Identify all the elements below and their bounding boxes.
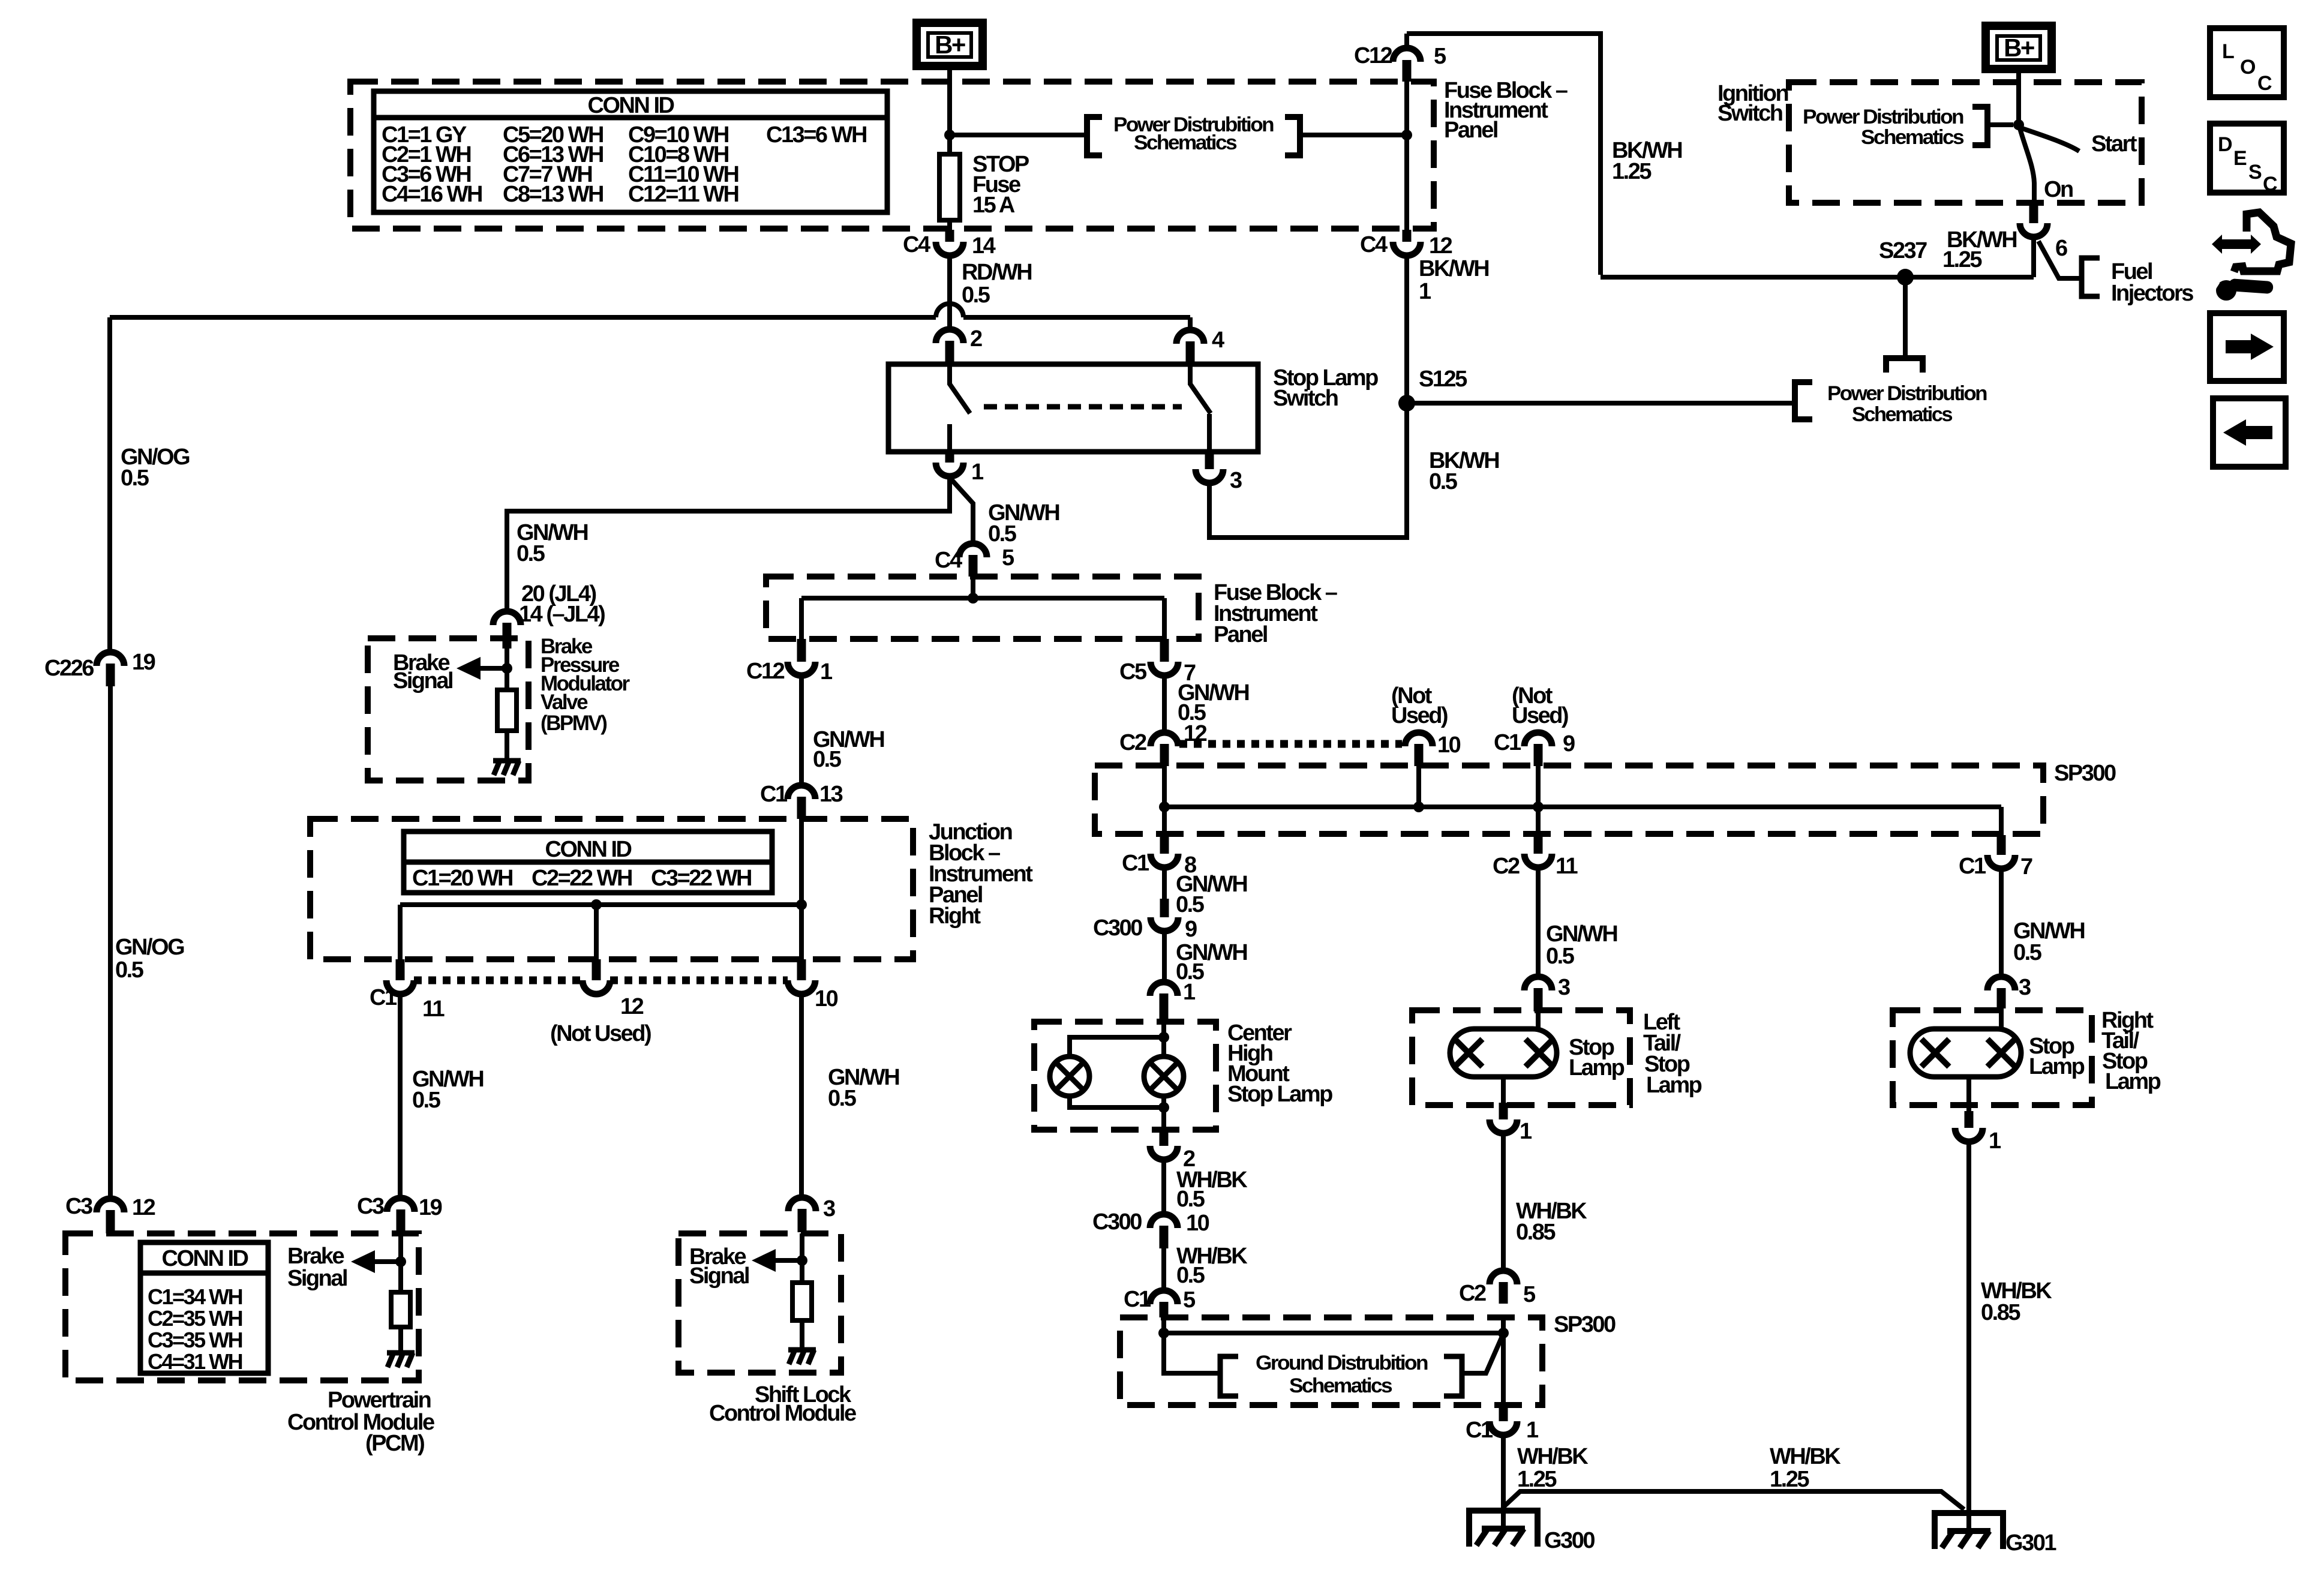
connector pin 1 (CHMSL) xyxy=(1150,982,1178,996)
wire C1-13 through junction block xyxy=(799,819,804,959)
bracket left (power distribution ref) xyxy=(1087,117,1102,155)
svg-text:C: C xyxy=(2263,173,2277,196)
bracket (power distribution ref S237) xyxy=(1886,358,1923,373)
svg-text:C1: C1 xyxy=(1124,1287,1151,1312)
connector pin 3 (right tail lamp) xyxy=(1987,977,2015,990)
connector C4 pin 12 xyxy=(1403,230,1412,242)
wire into right lamp xyxy=(1999,1008,2004,1030)
wire pin6 to fuel injectors xyxy=(2038,241,2082,278)
svg-text:1.25: 1.25 xyxy=(1612,159,1652,184)
svg-text:C226: C226 xyxy=(44,656,94,681)
wire bus to C5-7 xyxy=(1162,598,1167,639)
wire GN/OG down to C226 xyxy=(107,317,112,652)
svg-text:5: 5 xyxy=(1002,545,1014,571)
connector C226 pin 19 xyxy=(97,652,124,666)
svg-text:0.5: 0.5 xyxy=(988,521,1017,547)
bracket (power distribution ref ignition) xyxy=(1972,107,1987,145)
svg-text:Brake: Brake xyxy=(287,1244,344,1269)
wire RD/WH through hop to switch pin2 xyxy=(947,304,952,329)
svg-text:Injectors: Injectors xyxy=(2111,281,2193,306)
wire right lamp return xyxy=(1966,1077,1971,1111)
svg-text:Power Distribution: Power Distribution xyxy=(1827,382,1987,405)
wire GN/WH C2-11 to lamp pin 3 xyxy=(1536,867,1541,977)
svg-text:10: 10 xyxy=(815,986,838,1011)
connector C1 pin 5 (ground dist) xyxy=(1150,1290,1178,1304)
splice pack SP300 (dashed box) xyxy=(1095,766,2043,834)
icon vehicle schematic nav xyxy=(2212,235,2261,254)
bracket right (ground distribution ref) xyxy=(1444,1356,1462,1396)
connector pin 10 xyxy=(797,959,806,980)
svg-text:Schematics: Schematics xyxy=(1134,131,1237,154)
svg-text:WH/BK: WH/BK xyxy=(1517,1444,1589,1469)
svg-text:0.5: 0.5 xyxy=(1546,944,1575,969)
svg-text:BK/WH: BK/WH xyxy=(1419,256,1488,281)
svg-text:0.5: 0.5 xyxy=(121,466,149,491)
center high mount stop lamp (dashed box) xyxy=(1034,1022,1216,1130)
bulb CHMSL right xyxy=(1144,1056,1184,1096)
svg-text:C2: C2 xyxy=(1459,1281,1486,1306)
resistor shift lock input xyxy=(792,1283,812,1320)
wire GN/WH pin1 to BPMV branch xyxy=(507,476,950,611)
wire bus to C1-11 xyxy=(398,905,403,959)
connector pin 1 (right tail lamp) xyxy=(1965,1111,1974,1128)
CONN ID table (PCM) xyxy=(140,1242,268,1373)
svg-text:1: 1 xyxy=(1183,980,1196,1005)
switch contact pin3 xyxy=(1207,414,1212,452)
ignition switch (dashed box) xyxy=(1789,82,2142,203)
switch blade left (pin2) xyxy=(950,364,970,413)
svg-text:C300: C300 xyxy=(1092,1209,1142,1235)
svg-text:Schematics: Schematics xyxy=(1861,126,1964,149)
svg-text:12: 12 xyxy=(1429,233,1452,259)
wire CHMSL branch to left bulb xyxy=(1070,1037,1164,1057)
wire GN/WH C300-9 to lamp pin 1 xyxy=(1162,931,1167,982)
svg-text:C12: C12 xyxy=(746,659,785,684)
wire GN/OG C226 to PCM C3-12 xyxy=(108,686,113,1199)
wire WH/BK 1.25 cross-link to G301 xyxy=(1503,1491,1964,1509)
wire bus to C12-1 xyxy=(799,598,804,639)
ignition switch blade to Start xyxy=(2019,127,2079,151)
wire left lamp return xyxy=(1501,1077,1506,1103)
connector BPMV pin 20/14 xyxy=(493,611,521,625)
splice S125 xyxy=(1398,395,1415,412)
svg-text:Ground Distrubition: Ground Distrubition xyxy=(1256,1352,1428,1374)
wire S237 to power distribution ref xyxy=(1903,277,1908,358)
SP300 dotted connector line xyxy=(1179,740,1402,748)
connector C300 pin 9 xyxy=(1160,899,1169,917)
wire BPMV input to resistor xyxy=(505,649,509,690)
wire resistor to ground (shift lock) xyxy=(800,1320,804,1350)
svg-text:0.5: 0.5 xyxy=(1176,1263,1205,1288)
svg-text:3: 3 xyxy=(1558,975,1570,1000)
connector C12 pin 5 (top) xyxy=(1404,34,1409,49)
icon box forward arrow xyxy=(2210,313,2284,381)
svg-text:Start: Start xyxy=(2091,131,2137,157)
junction dot (pin10 branch) xyxy=(796,899,807,910)
svg-text:0.5: 0.5 xyxy=(1176,892,1205,917)
svg-text:Lamp: Lamp xyxy=(2105,1069,2161,1094)
svg-text:SP300: SP300 xyxy=(1554,1312,1616,1337)
svg-text:0.5: 0.5 xyxy=(517,541,545,566)
connector C1 pin 7 xyxy=(1997,835,2006,855)
svg-text:19: 19 xyxy=(419,1195,442,1220)
svg-text:6: 6 xyxy=(2055,236,2067,261)
connector C3 pin 12 (PCM) xyxy=(97,1199,124,1212)
wire C2-12 through SP300 xyxy=(1162,766,1167,835)
svg-text:Valve: Valve xyxy=(541,691,588,714)
ground (PCM internal) xyxy=(387,1350,415,1356)
svg-text:Powertrain: Powertrain xyxy=(328,1388,431,1413)
svg-text:9: 9 xyxy=(1563,731,1575,757)
svg-text:B+: B+ xyxy=(2004,34,2034,62)
wire pin10 to SP300 bus xyxy=(1416,766,1421,807)
svg-text:10: 10 xyxy=(1186,1211,1209,1236)
svg-text:GN/OG: GN/OG xyxy=(115,935,184,960)
connector switch pin 2 xyxy=(936,329,963,343)
svg-text:1: 1 xyxy=(1419,279,1431,304)
right tail/stop lamp (dashed box) xyxy=(1893,1010,2092,1105)
svg-text:C12: C12 xyxy=(1354,43,1392,68)
CONN ID table (junction block) xyxy=(404,831,772,893)
svg-text:3: 3 xyxy=(2019,975,2031,1000)
svg-text:On: On xyxy=(2044,177,2073,202)
svg-text:Signal: Signal xyxy=(393,668,452,694)
wire C1-5 to ground dist bracket xyxy=(1164,1317,1220,1373)
svg-text:G300: G300 xyxy=(1544,1528,1595,1553)
arrow brake signal (shift lock) xyxy=(772,1258,802,1263)
wire CHMSL left bulb return xyxy=(1070,1096,1164,1107)
wire resistor to ground (BPMV) xyxy=(505,731,509,761)
wire GN/WH pin1 to C4-5 xyxy=(949,477,973,544)
connector switch pin 4 xyxy=(1188,317,1193,331)
svg-text:C12=11 WH: C12=11 WH xyxy=(628,182,738,207)
svg-text:2: 2 xyxy=(970,326,982,352)
svg-text:1: 1 xyxy=(1520,1119,1532,1144)
svg-text:C3=35 WH: C3=35 WH xyxy=(148,1328,242,1352)
resistor BPMV input xyxy=(497,690,517,731)
svg-text:Signal: Signal xyxy=(287,1266,347,1291)
svg-text:CONN ID: CONN ID xyxy=(545,837,632,862)
splice pack SP300 ground (dashed box) xyxy=(1120,1317,1542,1405)
wire resistor to ground (PCM) xyxy=(398,1327,403,1353)
svg-text:12: 12 xyxy=(132,1195,155,1220)
switch blade right (pin4) xyxy=(1190,364,1211,413)
svg-text:CONN ID: CONN ID xyxy=(162,1246,248,1271)
svg-text:S: S xyxy=(2248,161,2262,184)
svg-text:0.5: 0.5 xyxy=(1429,469,1458,494)
connector pin 3 (left tail lamp) xyxy=(1524,977,1552,990)
wire BK/WH 1.25 bus to ignition xyxy=(1601,275,2034,280)
connector C2 pin 12 xyxy=(1151,733,1178,746)
splice S237 xyxy=(1897,269,1914,286)
junction dot brake signal (shift lock) xyxy=(797,1255,807,1266)
junction dot SP300 (pin10) xyxy=(1413,801,1424,812)
connector C1 pin 8 xyxy=(1160,835,1169,854)
wire GN/WH C5-7 to C2-12 xyxy=(1162,676,1167,733)
svg-text:11: 11 xyxy=(1556,854,1578,879)
wire GN/WH C1-11 to C3-19 xyxy=(398,994,403,1198)
svg-text:C4: C4 xyxy=(903,232,930,257)
junction dot SP300 (pin9) xyxy=(1533,801,1544,812)
resistor PCM input xyxy=(391,1292,410,1327)
svg-text:0.85: 0.85 xyxy=(1516,1220,1556,1245)
junction dot BPMV brake signal xyxy=(502,663,512,674)
svg-text:1: 1 xyxy=(820,659,833,685)
svg-text:(PCM): (PCM) xyxy=(365,1431,424,1456)
ground G301 xyxy=(1935,1513,2003,1549)
wire GN/WH pin10 to shift lock xyxy=(799,994,804,1197)
svg-text:Power Distribution: Power Distribution xyxy=(1803,106,1963,128)
wire CHMSL input xyxy=(1161,1022,1166,1057)
B+ battery feed symbol (left) xyxy=(917,23,983,66)
connector C300 pin 10 xyxy=(1150,1214,1178,1228)
wire C4-5 into fuse block 2 xyxy=(971,577,975,598)
wire C2-5 through ground dist to C1-1 xyxy=(1501,1317,1506,1407)
wire WH/BK left lamp to C2-5 xyxy=(1501,1133,1506,1271)
bracket (power distribution ref bottom) xyxy=(1795,382,1812,419)
wire BK/WH 1.25 from C12-5 to S237 line xyxy=(1407,34,1601,275)
svg-text:C1: C1 xyxy=(1122,851,1149,876)
svg-text:WH/BK: WH/BK xyxy=(1770,1444,1841,1469)
svg-text:C3: C3 xyxy=(65,1194,92,1219)
svg-text:1.25: 1.25 xyxy=(1770,1467,1809,1492)
junction dot fuse block 2 xyxy=(968,593,978,604)
wire WH/BK 0.85 right lamp to G301 xyxy=(1966,1142,1971,1532)
wire GN/WH C12-1 to C1-13 xyxy=(799,676,804,785)
svg-text:4: 4 xyxy=(1212,328,1224,353)
junction dot ground bus left xyxy=(1158,1328,1169,1338)
connector C5 pin 7 xyxy=(1160,639,1169,662)
svg-text:C2=35 WH: C2=35 WH xyxy=(148,1306,242,1331)
svg-text:5: 5 xyxy=(1434,44,1446,69)
svg-text:C2: C2 xyxy=(1493,854,1520,879)
wire GN/OG horizontal with crossover hop xyxy=(110,315,936,320)
lamp element right tail/stop xyxy=(1910,1029,2021,1077)
fuse block 2 internal bus xyxy=(801,596,1164,601)
connector switch pin 3 xyxy=(1205,452,1214,469)
svg-text:C2: C2 xyxy=(1119,730,1146,755)
fuse block - instrument panel (dashed box) xyxy=(350,82,1434,229)
connector pin 6 (ignition feed) xyxy=(2029,203,2038,223)
wire fuse to C4-14 xyxy=(947,220,952,230)
wire ignition On to S237 bus xyxy=(2031,237,2036,277)
junction dot (pin12 branch) xyxy=(591,899,602,910)
fuse block - instrument panel 2 (dashed box) xyxy=(766,577,1199,639)
svg-text:G301: G301 xyxy=(2005,1530,2056,1556)
svg-text:0.5: 0.5 xyxy=(115,957,144,983)
connector pin 2 (CHMSL) xyxy=(1160,1130,1169,1146)
svg-text:C4: C4 xyxy=(935,548,962,573)
svg-text:C3=22 WH: C3=22 WH xyxy=(651,866,751,891)
svg-text:19: 19 xyxy=(132,650,155,675)
svg-text:3: 3 xyxy=(1230,468,1242,493)
wire C3-19 to resistor (PCM) xyxy=(398,1233,403,1292)
svg-text:12: 12 xyxy=(620,994,644,1019)
stop lamp switch box xyxy=(888,364,1258,452)
connector pin 12 (not used) xyxy=(592,959,601,980)
SP300 internal bus xyxy=(1164,804,2001,809)
svg-text:Signal: Signal xyxy=(689,1263,749,1289)
connector switch pin 1 xyxy=(945,452,954,463)
wire GN/WH C1-8 to C300-9 xyxy=(1162,867,1167,899)
left tail/stop lamp (dashed box) xyxy=(1412,1010,1630,1105)
svg-text:C8=13 WH: C8=13 WH xyxy=(503,182,603,207)
wire into left lamp xyxy=(1536,1011,1541,1030)
connector C1 pin 11 xyxy=(396,959,405,980)
wire B+ to STOP fuse xyxy=(947,66,952,154)
switch contact pin1 xyxy=(947,424,952,452)
svg-text:Stop Lamp: Stop Lamp xyxy=(1227,1082,1332,1107)
wire SP300 bus to C1-7 xyxy=(1999,807,2004,835)
svg-text:C1: C1 xyxy=(370,985,397,1010)
bracket left (ground distribution ref) xyxy=(1220,1356,1238,1396)
svg-text:Used): Used) xyxy=(1512,703,1568,728)
svg-text:1.25: 1.25 xyxy=(1517,1467,1557,1492)
svg-text:S125: S125 xyxy=(1419,367,1467,392)
svg-text:0.5: 0.5 xyxy=(1176,1187,1205,1212)
svg-text:C3: C3 xyxy=(357,1194,384,1219)
connector C4 pin 14 xyxy=(945,230,954,242)
svg-text:C5: C5 xyxy=(1119,659,1147,685)
icon box back arrow xyxy=(2213,398,2286,467)
brake pressure modulator valve (dashed box) xyxy=(368,638,529,781)
wire WH/BK CHMSL to C300-10 xyxy=(1161,1160,1166,1214)
svg-text:Panel: Panel xyxy=(1214,622,1267,647)
wire pin3 to resistor (shift lock) xyxy=(800,1233,804,1283)
svg-text:C4: C4 xyxy=(1360,232,1388,257)
bracket right (power distribution ref) xyxy=(1285,117,1300,155)
wire power distribution ref to C12-5 leg xyxy=(1300,133,1407,137)
svg-text:0.5: 0.5 xyxy=(412,1088,441,1113)
svg-text:0.5: 0.5 xyxy=(2013,940,2042,965)
connector C2 pin 11 xyxy=(1534,835,1543,854)
wire bracket to pivot xyxy=(1987,122,2013,127)
wire WH/BK 1.25 to G300 xyxy=(1501,1435,1506,1529)
junction block dotted connector line xyxy=(414,977,582,984)
wire C12-5 to C4-12 inside fuse block xyxy=(1404,82,1409,230)
wire RD/WH down to crossover xyxy=(947,256,952,304)
svg-text:Switch: Switch xyxy=(1718,101,1782,126)
svg-text:L: L xyxy=(2222,40,2234,63)
connector C1 pin 9 (not used) xyxy=(1524,733,1552,746)
connector C12 pin 1 xyxy=(797,639,806,662)
connector pin 3 (shift lock) xyxy=(788,1197,816,1211)
svg-text:C1: C1 xyxy=(760,782,788,807)
switch mechanical link (dashed) xyxy=(984,404,1182,410)
svg-text:SP300: SP300 xyxy=(2054,761,2116,786)
wire bracket to ground bus xyxy=(1462,1334,1503,1373)
svg-text:C1: C1 xyxy=(1466,1418,1493,1443)
svg-text:9: 9 xyxy=(1185,917,1197,942)
connector C3 pin 19 (PCM) xyxy=(387,1198,415,1212)
connector C4 pin 5 xyxy=(959,544,987,557)
svg-text:C1=20 WH: C1=20 WH xyxy=(412,866,512,891)
junction dot ground bus right xyxy=(1498,1328,1509,1338)
svg-text:Used): Used) xyxy=(1391,703,1448,728)
svg-text:14: 14 xyxy=(972,233,996,259)
svg-text:1: 1 xyxy=(971,460,984,485)
svg-text:0.5: 0.5 xyxy=(828,1086,857,1111)
svg-text:Right: Right xyxy=(929,903,981,929)
ground G300 xyxy=(1469,1511,1538,1547)
svg-text:Control Module: Control Module xyxy=(709,1401,856,1426)
svg-text:14 (–JL4): 14 (–JL4) xyxy=(519,602,605,627)
connector C1 pin 1 (ground) xyxy=(1499,1407,1508,1421)
svg-text:Lamp: Lamp xyxy=(2029,1054,2085,1079)
wire CHMSL output xyxy=(1161,1096,1166,1130)
wire bus to pin 12 xyxy=(594,905,599,959)
svg-text:7: 7 xyxy=(2020,854,2032,879)
svg-text:3: 3 xyxy=(823,1196,835,1221)
svg-text:C4=31 WH: C4=31 WH xyxy=(148,1349,242,1374)
svg-text:0.5: 0.5 xyxy=(813,747,842,772)
connector pin 1 (left tail lamp) xyxy=(1499,1103,1508,1119)
svg-text:1: 1 xyxy=(1526,1418,1539,1443)
wire to power distribution ref (left) xyxy=(950,133,1087,137)
svg-text:B+: B+ xyxy=(935,31,965,59)
svg-text:CONN ID: CONN ID xyxy=(588,93,674,118)
ignition switch blade to On xyxy=(2020,128,2034,203)
B+ battery feed symbol (right) xyxy=(1986,26,2052,69)
arrow brake signal (BPMV) xyxy=(477,666,507,671)
svg-text:C1=34 WH: C1=34 WH xyxy=(148,1284,242,1309)
svg-text:0.85: 0.85 xyxy=(1981,1300,2020,1325)
svg-text:C300: C300 xyxy=(1093,915,1142,941)
svg-text:S237: S237 xyxy=(1879,238,1927,263)
svg-text:Schematics: Schematics xyxy=(1289,1374,1392,1397)
svg-text:D: D xyxy=(2218,133,2232,156)
svg-text:E: E xyxy=(2233,147,2247,170)
wire S125 to power distribution ref xyxy=(1407,401,1795,406)
connector C2 pin 5 (ground dist) xyxy=(1490,1271,1517,1284)
wire pin9 through SP300 to C2-11 xyxy=(1536,766,1541,835)
bulb CHMSL left xyxy=(1050,1056,1089,1096)
svg-text:O: O xyxy=(2240,56,2256,79)
svg-text:C13=6 WH: C13=6 WH xyxy=(766,122,866,148)
svg-text:(Not Used): (Not Used) xyxy=(550,1021,651,1046)
shift lock control module (dashed box) xyxy=(678,1233,841,1373)
svg-text:C: C xyxy=(2257,72,2272,95)
svg-text:1: 1 xyxy=(1989,1128,2001,1154)
svg-text:0.5: 0.5 xyxy=(962,283,990,308)
svg-text:11: 11 xyxy=(422,996,445,1022)
junction block internal bus xyxy=(400,902,801,907)
svg-text:C1: C1 xyxy=(1959,854,1986,879)
svg-text:C4=16 WH: C4=16 WH xyxy=(382,182,482,207)
arrow brake signal (PCM) xyxy=(371,1259,401,1264)
connector C1 pin 13 (junction block) xyxy=(788,785,815,799)
svg-text:C2=22 WH: C2=22 WH xyxy=(532,866,632,891)
junction dot CHMSL bottom xyxy=(1158,1102,1169,1113)
lamp element left tail/stop xyxy=(1450,1029,1557,1077)
powertrain control module (dashed box) xyxy=(65,1233,419,1380)
wire B+ to ignition pivot xyxy=(2016,69,2021,125)
svg-text:15 A: 15 A xyxy=(972,193,1015,218)
icon box DESC xyxy=(2210,124,2284,193)
ground (BPMV internal) xyxy=(493,758,521,764)
wire BK/WH from C4-12 via S125 to switch pin3 xyxy=(1209,256,1407,538)
junction block - instrument panel right (dashed box) xyxy=(310,819,913,959)
svg-text:Schematics: Schematics xyxy=(1852,403,1953,426)
junction dot ignition pivot xyxy=(2013,119,2024,130)
wire WH/BK C300-10 to C1-5 xyxy=(1161,1248,1166,1290)
junction dot brake signal (PCM) xyxy=(395,1256,406,1267)
svg-text:Lamp: Lamp xyxy=(1569,1055,1625,1080)
svg-text:Panel: Panel xyxy=(1444,118,1497,143)
junction dot CHMSL top xyxy=(1158,1032,1169,1043)
bracket (fuel injectors) xyxy=(2082,258,2100,296)
svg-text:5: 5 xyxy=(1183,1287,1196,1313)
